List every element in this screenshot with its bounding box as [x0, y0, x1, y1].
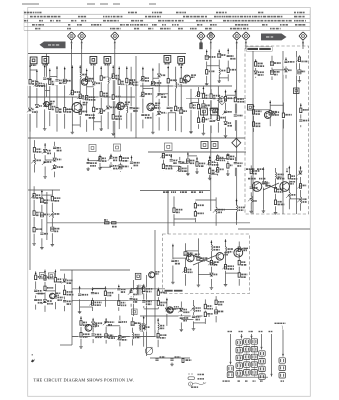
- band switch column lines: [230, 334, 232, 365]
- midl component 3.3: [52, 165, 58, 172]
- preamp component 2.3: [42, 299, 48, 306]
- tp-area link wire 1: [207, 65, 220, 67]
- transformer TR2: [141, 323, 143, 332]
- mid3 wire 1: [209, 156, 211, 177]
- audioa component 3.1: [103, 291, 109, 298]
- premvb wire 1: [173, 196, 175, 226]
- if1 component 5.2: [173, 106, 179, 113]
- premvb component 2.2: [193, 211, 199, 218]
- midl component 2.2: [42, 160, 48, 167]
- osc wire 5: [130, 67, 132, 132]
- leftlow wire 3: [51, 190, 53, 243]
- if1 link wire 4: [168, 112, 176, 114]
- midl wire 1: [33, 140, 35, 172]
- osc component 2.1: [110, 74, 116, 81]
- audiob wire 2: [92, 318, 94, 343]
- preamp link wire 1: [36, 293, 45, 295]
- osc wire 1: [107, 65, 109, 129]
- front-end component 3.2: [42, 103, 48, 110]
- switch cell E1: [279, 358, 285, 363]
- test point D triangle: [209, 33, 213, 36]
- if1 component 3.2: [156, 92, 162, 99]
- leftlow component 2.1: [39, 198, 45, 205]
- band switch bottom rail: [236, 376, 268, 378]
- mid2 component 5.1: [194, 162, 200, 169]
- mid2 wire 1: [162, 153, 164, 171]
- vertical x146 audio: [146, 275, 148, 356]
- det link wire 1: [191, 102, 199, 104]
- preamp component 1.1: [33, 275, 39, 282]
- mid3 component 3.1: [225, 155, 231, 162]
- switch cell D3: [259, 366, 265, 371]
- wire stub y358: [150, 357, 190, 359]
- mid3 wire 2: [217, 154, 219, 175]
- mid3 link wire 1: [210, 173, 218, 175]
- ctll component 3.2: [273, 187, 279, 194]
- multivibrator label: [165, 290, 173, 292]
- ctll component 4.1: [287, 174, 293, 181]
- ctll component 5.3: [298, 197, 304, 204]
- switch cell B1: [244, 339, 250, 344]
- preamp component 1.3: [33, 298, 39, 305]
- multivibrator cross coupling wires: [193, 255, 217, 265]
- ctlt component 3.2: [283, 68, 289, 75]
- ctlt component 2.1: [269, 61, 275, 68]
- if1 wire 4: [167, 66, 169, 131]
- audiob wire 1: [80, 316, 82, 345]
- mid3 wire 4: [234, 157, 236, 176]
- mid2 component 1.2: [161, 164, 167, 171]
- audiob component 1.2: [78, 332, 84, 339]
- switch cell A5: [236, 371, 242, 376]
- midl component 3.1: [52, 146, 58, 153]
- ctlt wire 4: [298, 55, 300, 79]
- transistor T3: [72, 103, 82, 113]
- ratio detector diamond: [232, 138, 241, 147]
- mid1 wire 5: [131, 156, 133, 170]
- leftlow component 2.3: [39, 232, 45, 239]
- mixer component 4.2: [84, 95, 90, 102]
- audiob component 3.1: [103, 320, 109, 327]
- front-end wire 1: [29, 64, 31, 132]
- mixer component 4.1: [84, 77, 90, 84]
- mixer wire 6: [100, 66, 102, 127]
- ctll component 5.1: [298, 171, 304, 178]
- ctlt component 4.1: [297, 57, 303, 64]
- switch cell B4: [244, 362, 250, 367]
- wire below control board: [238, 228, 310, 230]
- premvb component 4.1: [234, 206, 240, 213]
- front-end component 3.1: [42, 77, 48, 84]
- switch cell D4: [259, 374, 265, 379]
- if1 component 6.1: [178, 78, 184, 85]
- transistor T4: [117, 102, 125, 110]
- if1 component 2.2: [150, 106, 156, 113]
- front-end link wire 3: [45, 89, 50, 91]
- det wire 4: [210, 89, 212, 133]
- if1 wire 2: [152, 68, 154, 131]
- mvb link wire 3: [198, 274, 211, 276]
- audioa link wire 6: [144, 308, 159, 310]
- postmvb link wire 2: [181, 319, 193, 321]
- audiob component 7.2: [155, 333, 161, 340]
- wire bus y190 mid: [140, 190, 210, 192]
- control board arrows into transistors: [252, 168, 289, 172]
- transistor T13: [187, 254, 195, 262]
- mid1 component 1.1: [85, 161, 91, 168]
- vertical bus x46: [46, 54, 48, 98]
- front-end component 5.1: [54, 79, 60, 86]
- mvb component 3.1: [196, 256, 202, 263]
- det component 7.2: [233, 114, 239, 121]
- mvb link wire 1: [173, 257, 186, 259]
- boxed symbol audio small: [132, 309, 138, 315]
- midl component 2.1: [42, 149, 48, 156]
- mid2 component 3.2: [177, 167, 183, 174]
- det component 6.3: [223, 121, 229, 128]
- ctlm component 3.1: [281, 113, 287, 120]
- ctll wire 2: [262, 167, 264, 209]
- ctll component 1.3: [248, 196, 254, 203]
- switch cell SL1: [227, 366, 233, 371]
- mvb component 5.2: [223, 264, 229, 271]
- osc component 5.2: [128, 106, 134, 113]
- boxed symbol mid2: [114, 144, 121, 151]
- audioa wire 1: [79, 286, 81, 310]
- front-end component 4.1: [47, 80, 53, 87]
- ctlt component 3.1: [283, 60, 289, 67]
- audiob wire 6: [143, 316, 145, 347]
- det component 4.2: [208, 108, 214, 115]
- premvb component 2.1: [193, 203, 199, 210]
- osc wire 3: [118, 67, 120, 130]
- mvb component 6.1: [236, 247, 242, 254]
- capacitor C71: [155, 359, 158, 360]
- transistor T2: [81, 79, 87, 85]
- mvb component 2.2: [183, 268, 189, 275]
- det link wire 4: [211, 108, 218, 110]
- mid1 wire 1: [87, 158, 89, 168]
- mvb wire 4: [210, 240, 212, 286]
- wire bottom left: [60, 344, 72, 346]
- test point R: [67, 32, 75, 40]
- control board label smudges above transistors: [248, 178, 250, 180]
- front-end component 1.2: [27, 107, 33, 114]
- audioa component 7.2: [156, 301, 162, 308]
- mixer wire 4: [86, 69, 88, 132]
- mvb component 4.1: [209, 245, 215, 252]
- audiob wire 3: [105, 318, 107, 344]
- switch cell B2: [244, 347, 250, 352]
- band switch top labels: [228, 331, 230, 332]
- test point B: [111, 32, 119, 40]
- mid3 link wire 2: [218, 158, 228, 160]
- mid3 wire 3: [227, 153, 229, 172]
- faded header strip above table: [22, 3, 39, 5]
- postmvb link wire 3: [194, 322, 206, 324]
- front-end component 4.2: [47, 105, 53, 112]
- det component 3.3: [201, 117, 207, 124]
- wire bus y223: [47, 222, 250, 224]
- audiob wire 7: [157, 318, 159, 347]
- svg-text:THE CIRCUIT DIAGRAM SHOWS POSI: THE CIRCUIT DIAGRAM SHOWS POSITION LW.: [34, 377, 135, 382]
- control board vertical x253: [252, 51, 254, 214]
- mid2 link wire 2: [171, 165, 180, 167]
- osc wire 4: [126, 66, 128, 128]
- mid1 wire 2: [99, 155, 101, 167]
- mvb component 4.2: [209, 260, 215, 267]
- ctll wire 5: [300, 166, 302, 211]
- ctlm wire 2: [269, 100, 271, 126]
- mid1 link wire 1: [88, 160, 100, 162]
- wire audio bus2: [72, 288, 165, 290]
- midl component 3.2: [52, 158, 58, 165]
- vertical x47 to y223: [46, 192, 48, 240]
- mixer component 6.3: [98, 109, 104, 116]
- resistor R71: [182, 359, 184, 363]
- switch cell C1: [251, 339, 257, 344]
- postmvb component 2.1: [179, 308, 185, 315]
- premvb link wire 3: [216, 209, 236, 211]
- IF transformer L7: [164, 56, 171, 63]
- audioa component 4.1: [116, 287, 122, 294]
- transistor T15: [234, 248, 243, 257]
- mixer component 4.3: [84, 113, 90, 120]
- wire bus y152: [148, 151, 246, 153]
- mid2 component 2.1: [168, 159, 174, 166]
- audioa component 1.1: [77, 293, 83, 300]
- if1 wire 5: [175, 67, 177, 131]
- control board cross wires: [263, 183, 279, 190]
- front-end link wire 4: [50, 76, 57, 78]
- mixer link wire 2: [72, 124, 80, 126]
- mixer link wire 1: [65, 108, 73, 110]
- premvb wire 3: [215, 197, 217, 225]
- resistor R41 on y223 bus: [105, 222, 110, 224]
- if1 component 5.1: [173, 82, 179, 89]
- bus overdraw top: [28, 54, 250, 337]
- wire audio bus4: [72, 336, 160, 338]
- mid3 component 4.1: [233, 161, 239, 168]
- detector boxed squares: [201, 108, 208, 115]
- switch cell C5: [251, 370, 257, 375]
- transistor T6: [184, 75, 191, 82]
- leftlow wire 2: [41, 190, 43, 246]
- det component 3.2: [201, 103, 207, 110]
- mvb link wire 2: [186, 250, 199, 252]
- transistor T16: [50, 293, 56, 299]
- ctll wire 3: [275, 168, 277, 211]
- mid3 component 2.2: [215, 167, 221, 174]
- control board label row lower: [246, 168, 248, 170]
- preamp component 1.2: [33, 289, 39, 296]
- mid2 wire 4: [187, 152, 189, 172]
- vertical x296 control drop: [296, 51, 298, 214]
- preamp wire 3: [54, 270, 56, 310]
- premvb wire 2: [194, 202, 196, 223]
- test point E: [232, 32, 240, 40]
- wire y315: [140, 315, 210, 317]
- IF transformer L5: [104, 57, 111, 64]
- switch cell D1: [259, 351, 265, 356]
- preamp component 2.1: [42, 275, 48, 282]
- mid1 component 3.2: [108, 164, 114, 171]
- vertical bus x115: [114, 44, 116, 138]
- front-end link wire 1: [30, 69, 37, 71]
- audioa link wire 2: [93, 287, 106, 289]
- front-end component 2.1: [34, 82, 40, 89]
- resistor R42 on y223 bus: [112, 222, 117, 224]
- switch cell E3: [279, 373, 285, 378]
- filter boxed squares row2: [201, 142, 208, 149]
- osc component 3.2: [116, 105, 122, 112]
- mid1 wire 4: [119, 155, 121, 172]
- mid2 link wire 4: [188, 155, 197, 157]
- mvb component 2.1: [183, 251, 189, 257]
- tp-area component 3.2: [225, 68, 231, 75]
- if1 component 1.3: [140, 113, 146, 120]
- mid2 wire 2: [170, 154, 172, 168]
- postmvb wire 1: [166, 298, 168, 326]
- audiob link wire 3: [106, 325, 120, 327]
- position LW pointer mark: [31, 359, 35, 363]
- leftlow component 2.2: [39, 213, 45, 220]
- midl component 1.1: [32, 147, 38, 154]
- osc component 1.2: [105, 105, 111, 112]
- boxed symbol mid: [89, 145, 96, 152]
- switch cell A2: [236, 348, 242, 353]
- label row above multivibrator: [163, 191, 165, 193]
- tp-area component 1.1: [204, 55, 210, 62]
- if1 link wire 1: [143, 88, 153, 90]
- flag label output right: [261, 34, 287, 41]
- legend box sample: [188, 377, 195, 380]
- tp-area wire 3: [227, 48, 229, 81]
- osc component 2.3: [110, 114, 116, 121]
- det component 1.1: [188, 103, 194, 110]
- ctlt wire 2: [271, 56, 273, 80]
- transformer TR1: [139, 285, 141, 296]
- wire audio bus3: [72, 299, 160, 301]
- midl link wire 2: [45, 159, 55, 161]
- front-end component 2.2: [34, 104, 40, 111]
- audiob wire 5: [132, 317, 134, 345]
- speaker LS1: [145, 347, 152, 354]
- det wire 5: [217, 87, 219, 133]
- postmvb component 2.2: [179, 316, 185, 323]
- premvb link wire 2: [195, 199, 216, 201]
- postmvb component 3.2: [191, 315, 197, 322]
- preamp component 4.2: [62, 290, 68, 297]
- leftlow component 1.2: [31, 211, 37, 218]
- audiob component 7.1: [155, 324, 161, 331]
- vertical x155: [154, 230, 156, 337]
- audioa wire 6: [143, 284, 145, 308]
- preamp link wire 2: [45, 290, 55, 292]
- audiob component 6.1: [141, 325, 147, 332]
- transistor T1: [44, 101, 49, 106]
- preamp component 3.1: [53, 277, 59, 284]
- if1 component 6.2: [178, 109, 184, 116]
- ctlm wire 1: [253, 104, 255, 132]
- det component 5.2: [216, 116, 222, 123]
- osc component 1.1: [105, 77, 111, 84]
- transistor T18: [149, 272, 155, 278]
- switch cell C3: [251, 354, 257, 359]
- mid3 component 2.1: [215, 156, 221, 163]
- switch cell A3: [236, 355, 242, 360]
- wire supply bus y138: [28, 137, 245, 139]
- switch cell C4: [251, 362, 257, 367]
- flag label AERIAL left: [40, 42, 66, 49]
- ctll link wire 4: [289, 198, 300, 200]
- vertical x283 control: [282, 51, 284, 214]
- audiob component 5.2: [130, 333, 136, 340]
- transistor T14: [216, 253, 224, 261]
- audioa component 5.1: [128, 290, 134, 297]
- mid1 component 2.1: [97, 156, 103, 163]
- midl wire 3: [54, 142, 56, 178]
- mvb wire 3: [197, 238, 199, 283]
- postmvb component 4.2: [203, 312, 209, 319]
- transistor T19: [167, 307, 173, 313]
- IF transformer L1: [30, 57, 37, 64]
- legend dashed sample: [188, 373, 193, 375]
- tp-area component 1.2: [204, 69, 210, 76]
- switch cell SL2: [227, 372, 233, 377]
- ctlt wire 3: [285, 57, 287, 78]
- mid3 component 3.2: [225, 163, 231, 170]
- ctll component 3.1: [273, 173, 279, 180]
- band switch bottom labels: [223, 380, 225, 381]
- premvb wire 4: [236, 199, 238, 225]
- det component 3.1: [201, 94, 207, 101]
- postmvb wire 4: [204, 299, 206, 324]
- leftlow component 3.1: [50, 196, 56, 203]
- switch cell D2: [259, 359, 265, 364]
- mid2 wire 3: [179, 157, 181, 173]
- mixer component 6.2: [98, 92, 104, 99]
- ctlt link wire 2: [272, 69, 286, 71]
- det component 2.1: [196, 92, 202, 99]
- mid2 wire 5: [196, 157, 198, 170]
- postmvb component 5.1: [213, 300, 219, 307]
- if1 component 1.2: [140, 92, 146, 99]
- control board dashed enclosure: [245, 46, 309, 214]
- midl component 1.2: [32, 158, 38, 165]
- vertical bus x136: [135, 56, 137, 138]
- postmvb link wire 1: [167, 308, 181, 310]
- control board label: [246, 47, 272, 51]
- ctlm wire 4: [300, 103, 302, 127]
- boxed switch S1b: [48, 273, 54, 279]
- vertical bus x72 audio: [71, 270, 73, 345]
- osc component 3.1: [116, 80, 122, 87]
- midl wire 2: [44, 143, 46, 175]
- postmvb component 4.1: [203, 304, 209, 311]
- mixer wire 2: [71, 65, 73, 130]
- premvb link wire 1: [174, 218, 195, 220]
- mixer link wire 4: [87, 86, 94, 88]
- audiob wire 4: [119, 316, 121, 347]
- audiob component 4.2: [117, 335, 123, 342]
- wire bus y190 left: [28, 189, 60, 191]
- front-end component 5.2: [54, 107, 60, 114]
- transistor T5: [147, 103, 155, 111]
- mid3 component 1.2: [207, 169, 213, 176]
- push button label: [275, 323, 277, 324]
- mvb link wire 5: [226, 272, 240, 274]
